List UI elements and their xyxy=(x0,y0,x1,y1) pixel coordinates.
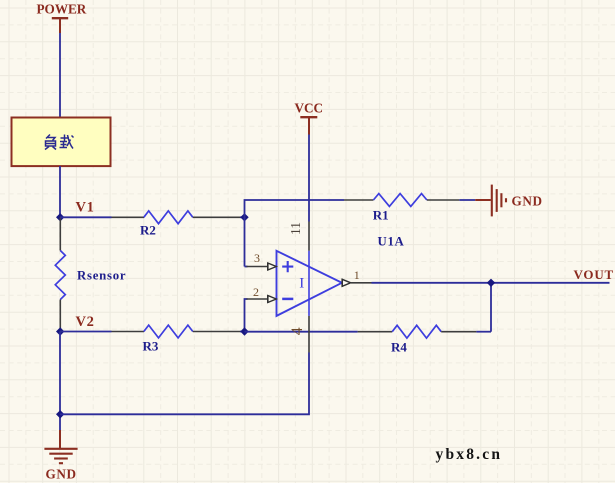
pin 1 (output) xyxy=(342,268,371,287)
junction output node xyxy=(487,279,495,287)
svg-text:GND: GND xyxy=(512,193,543,208)
pin 11 power top xyxy=(288,222,309,316)
load box FuZai xyxy=(12,118,111,167)
junction node B xyxy=(240,327,248,335)
svg-text:R4: R4 xyxy=(391,339,407,354)
svg-text:11: 11 xyxy=(288,222,303,235)
pin 2 (inverting input) xyxy=(247,285,277,303)
resistor Rsensor xyxy=(55,217,126,331)
wire R4 to output node xyxy=(490,283,492,332)
wire bottom rail xyxy=(60,353,309,415)
svg-text:R1: R1 xyxy=(373,207,389,222)
svg-text:3: 3 xyxy=(254,251,260,265)
wire POWER to load xyxy=(59,33,61,118)
wire node A to pin 3 and R1 row xyxy=(245,200,345,267)
junction node A xyxy=(240,213,248,221)
svg-text:VOUT: VOUT xyxy=(574,267,615,282)
wire V2 to GND xyxy=(59,332,61,431)
svg-text:R3: R3 xyxy=(143,338,159,353)
node V1 junction xyxy=(56,199,95,221)
svg-text:V1: V1 xyxy=(76,199,95,215)
pin 4 power bottom xyxy=(289,316,309,353)
resistor R2 xyxy=(60,211,245,237)
svg-text:V2: V2 xyxy=(76,314,95,330)
svg-text:2: 2 xyxy=(253,285,259,299)
power port VCC xyxy=(295,100,324,134)
svg-text:1: 1 xyxy=(354,268,360,282)
svg-text:U1A: U1A xyxy=(378,234,405,248)
wire node B to pin 2 xyxy=(245,299,248,332)
power port POWER xyxy=(37,2,87,33)
svg-text:POWER: POWER xyxy=(37,2,87,17)
svg-text:ybx8.cn: ybx8.cn xyxy=(436,446,503,463)
wire node B to R4 xyxy=(245,331,358,333)
wire output to VOUT xyxy=(372,282,610,284)
op-amp U1A xyxy=(277,234,405,316)
resistor R3 xyxy=(60,325,245,353)
wire VCC to op-amp xyxy=(308,135,310,222)
svg-text:4: 4 xyxy=(289,327,306,335)
ground GND right xyxy=(475,185,542,217)
resistor R4 xyxy=(358,325,491,354)
svg-text:Rsensor: Rsensor xyxy=(77,268,126,282)
junction bottom left xyxy=(56,410,64,418)
resistor R1 xyxy=(344,194,475,223)
svg-text:I: I xyxy=(299,276,304,292)
svg-text:R2: R2 xyxy=(140,222,156,237)
svg-text:GND: GND xyxy=(46,466,77,481)
wire load to node V1 xyxy=(59,166,61,217)
pin 3 (non-inverting input) xyxy=(245,251,277,270)
node V2 junction xyxy=(56,314,95,336)
svg-text:VCC: VCC xyxy=(295,100,324,115)
ground GND left xyxy=(44,430,77,481)
